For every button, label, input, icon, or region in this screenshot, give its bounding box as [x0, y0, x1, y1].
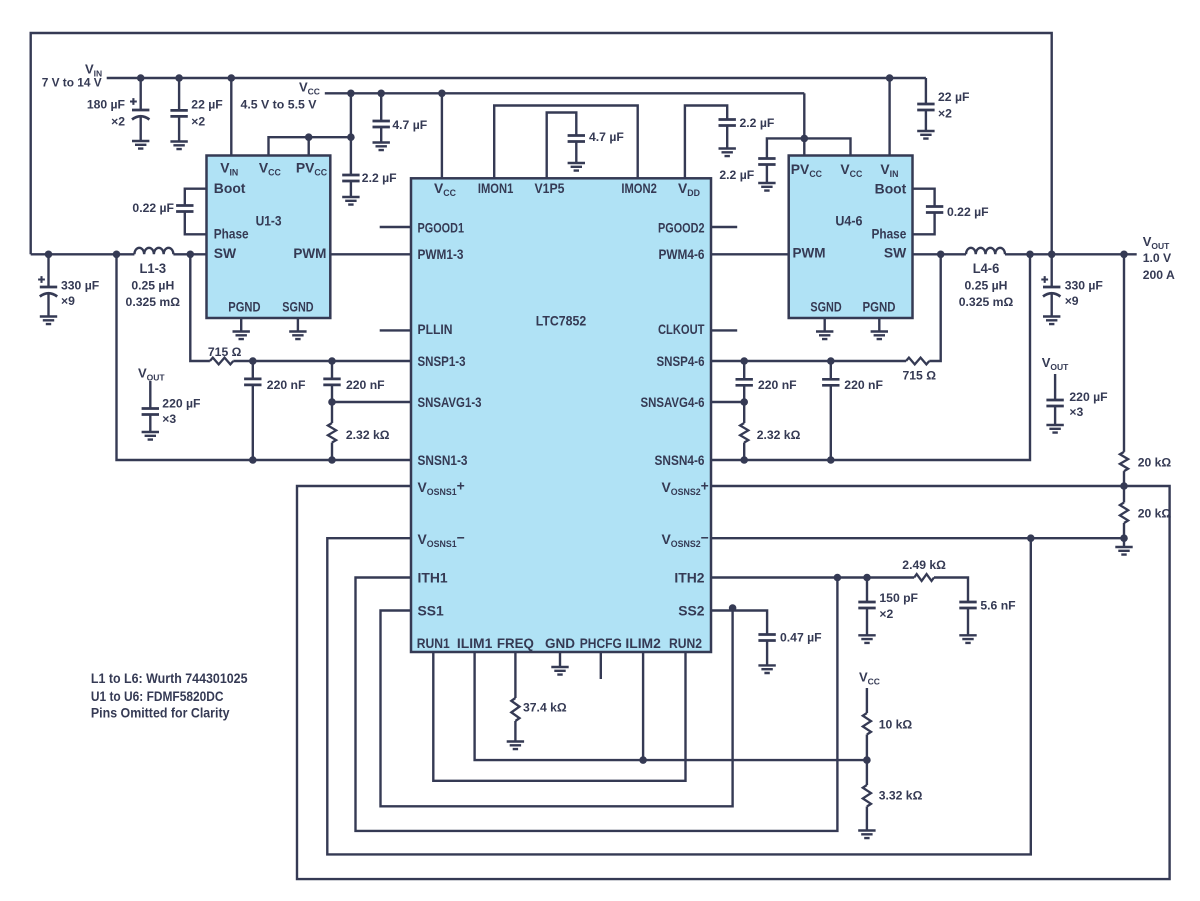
svg-text:PHCFG: PHCFG — [580, 635, 622, 651]
svg-text:5.6 nF: 5.6 nF — [980, 598, 1015, 612]
svg-text:IMON2: IMON2 — [621, 180, 657, 196]
svg-text:220 µF: 220 µF — [162, 397, 200, 411]
svg-text:0.25 µH: 0.25 µH — [131, 279, 174, 293]
svg-text:IMON1: IMON1 — [478, 180, 514, 196]
svg-text:10 kΩ: 10 kΩ — [879, 718, 913, 732]
svg-text:2.32 kΩ: 2.32 kΩ — [346, 428, 390, 442]
svg-text:V1P5: V1P5 — [535, 180, 565, 196]
svg-text:Boot: Boot — [875, 180, 907, 196]
svg-text:150 pF: 150 pF — [879, 591, 918, 605]
svg-text:PWM: PWM — [793, 245, 826, 261]
svg-text:2.2 µF: 2.2 µF — [362, 171, 397, 185]
svg-text:SNSAVG4-6: SNSAVG4-6 — [641, 394, 705, 410]
svg-text:ILIM1: ILIM1 — [457, 635, 493, 651]
svg-text:0.325 mΩ: 0.325 mΩ — [126, 295, 181, 309]
svg-text:22 µF: 22 µF — [938, 90, 969, 104]
svg-text:PGND: PGND — [228, 299, 260, 315]
svg-text:0.22 µF: 0.22 µF — [947, 205, 989, 219]
svg-text:0.22 µF: 0.22 µF — [132, 201, 174, 215]
svg-text:SW: SW — [214, 245, 237, 261]
svg-text:GND: GND — [545, 635, 575, 651]
svg-text:SNSP1-3: SNSP1-3 — [418, 353, 466, 369]
svg-text:PLLIN: PLLIN — [418, 321, 453, 337]
svg-text:×2: ×2 — [879, 607, 893, 621]
svg-text:3.32 kΩ: 3.32 kΩ — [879, 789, 923, 803]
svg-text:SNSN4-6: SNSN4-6 — [655, 452, 705, 468]
svg-text:×2: ×2 — [111, 114, 125, 128]
svg-text:715 Ω: 715 Ω — [208, 345, 242, 359]
svg-text:PWM: PWM — [293, 245, 326, 261]
svg-text:2.32 kΩ: 2.32 kΩ — [757, 428, 801, 442]
svg-text:330 µF: 330 µF — [1065, 279, 1103, 293]
svg-text:L1 to L6: Wurth 744301025: L1 to L6: Wurth 744301025 — [91, 671, 248, 686]
svg-text:220 nF: 220 nF — [267, 378, 306, 392]
svg-text:SNSP4-6: SNSP4-6 — [657, 353, 705, 369]
svg-text:220 nF: 220 nF — [844, 378, 883, 392]
svg-text:SGND: SGND — [282, 299, 313, 315]
svg-text:0.47 µF: 0.47 µF — [780, 630, 822, 644]
svg-text:SNSN1-3: SNSN1-3 — [418, 452, 468, 468]
svg-text:SS2: SS2 — [678, 603, 705, 619]
svg-text:×9: ×9 — [1065, 294, 1079, 308]
svg-text:1.0 V: 1.0 V — [1143, 251, 1172, 265]
svg-text:20 kΩ: 20 kΩ — [1138, 507, 1172, 521]
svg-text:LTC7852: LTC7852 — [536, 313, 587, 329]
svg-text:SNSAVG1-3: SNSAVG1-3 — [418, 394, 482, 410]
svg-text:2.2 µF: 2.2 µF — [719, 168, 754, 182]
svg-text:Phase: Phase — [872, 226, 907, 242]
svg-text:330 µF: 330 µF — [61, 279, 99, 293]
svg-text:4.7 µF: 4.7 µF — [589, 130, 624, 144]
svg-text:Boot: Boot — [214, 180, 246, 196]
svg-text:×9: ×9 — [61, 294, 75, 308]
svg-text:0.325 mΩ: 0.325 mΩ — [959, 295, 1014, 309]
svg-text:CLKOUT: CLKOUT — [658, 321, 705, 337]
svg-text:PGOOD2: PGOOD2 — [658, 219, 705, 235]
svg-text:220 µF: 220 µF — [1069, 390, 1107, 404]
svg-text:ITH2: ITH2 — [674, 569, 704, 585]
svg-text:L1-3: L1-3 — [140, 260, 167, 276]
svg-text:2.49 kΩ: 2.49 kΩ — [902, 558, 946, 572]
svg-text:×2: ×2 — [938, 107, 952, 121]
svg-text:RUN2: RUN2 — [669, 635, 702, 651]
svg-text:PWM1-3: PWM1-3 — [418, 246, 464, 262]
svg-text:220 nF: 220 nF — [346, 378, 385, 392]
svg-text:200 A: 200 A — [1143, 268, 1175, 282]
svg-text:180 µF: 180 µF — [87, 98, 125, 112]
svg-text:4.5 V to 5.5 V: 4.5 V to 5.5 V — [241, 98, 318, 112]
svg-text:×2: ×2 — [191, 114, 205, 128]
svg-text:PGND: PGND — [863, 299, 896, 315]
svg-text:37.4 kΩ: 37.4 kΩ — [523, 701, 567, 715]
svg-text:220 nF: 220 nF — [758, 378, 797, 392]
svg-text:2.2 µF: 2.2 µF — [740, 116, 775, 130]
svg-text:20 kΩ: 20 kΩ — [1138, 456, 1172, 470]
svg-text:Phase: Phase — [214, 226, 249, 242]
svg-text:SS1: SS1 — [418, 603, 445, 619]
svg-text:22 µF: 22 µF — [191, 98, 222, 112]
svg-text:4.7 µF: 4.7 µF — [392, 118, 427, 132]
svg-text:715 Ω: 715 Ω — [903, 369, 937, 383]
svg-text:ITH1: ITH1 — [418, 569, 448, 585]
svg-text:RUN1: RUN1 — [417, 635, 450, 651]
svg-text:FREQ: FREQ — [497, 635, 534, 651]
svg-text:×3: ×3 — [162, 412, 176, 426]
svg-text:L4-6: L4-6 — [973, 260, 1000, 276]
svg-text:0.25 µH: 0.25 µH — [965, 279, 1008, 293]
svg-text:7 V to 14 V: 7 V to 14 V — [42, 76, 103, 90]
svg-text:U4-6: U4-6 — [835, 212, 862, 228]
svg-text:SW: SW — [884, 245, 907, 261]
svg-text:ILIM2: ILIM2 — [625, 635, 661, 651]
svg-text:×3: ×3 — [1069, 405, 1083, 419]
svg-text:U1-3: U1-3 — [256, 212, 282, 228]
svg-text:PGOOD1: PGOOD1 — [418, 219, 465, 235]
svg-text:PWM4-6: PWM4-6 — [659, 246, 705, 262]
svg-text:Pins Omitted for Clarity: Pins Omitted for Clarity — [91, 706, 230, 721]
svg-text:SGND: SGND — [810, 299, 841, 315]
svg-text:U1 to U6: FDMF5820DC: U1 to U6: FDMF5820DC — [91, 689, 224, 704]
